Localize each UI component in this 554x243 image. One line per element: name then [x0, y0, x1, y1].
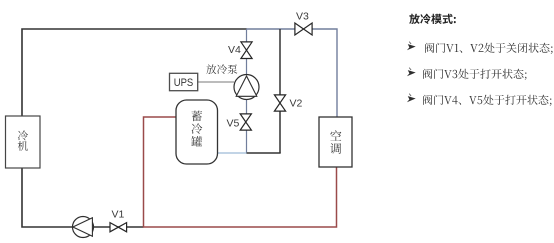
svg-text:UPS: UPS: [174, 77, 194, 89]
svg-text:V3: V3: [296, 11, 309, 23]
svg-text:V4: V4: [228, 44, 241, 56]
svg-text:V2: V2: [290, 98, 303, 110]
svg-text:V5: V5: [227, 118, 240, 130]
svg-text:V1: V1: [112, 209, 125, 221]
